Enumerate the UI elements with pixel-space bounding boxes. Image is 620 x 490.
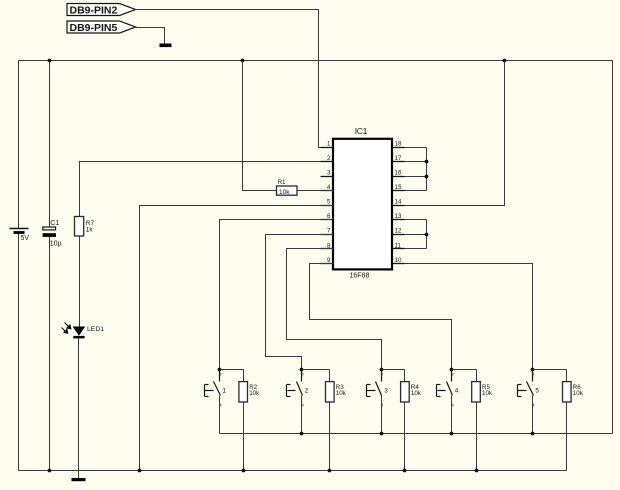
svg-text:IC1: IC1 bbox=[355, 126, 368, 136]
svg-text:10k: 10k bbox=[482, 390, 493, 397]
junction switch rail / switch 5 bbox=[531, 432, 535, 436]
wire switch 1 bottom bbox=[219, 396, 221, 434]
wire R2 to ground rail bbox=[243, 403, 245, 471]
wire R3 to ground rail bbox=[329, 403, 331, 471]
node switch 4 top junction bbox=[450, 368, 454, 372]
pin 6 bbox=[321, 213, 334, 220]
wire pin 13 to bus bbox=[405, 219, 427, 221]
svg-text:1: 1 bbox=[223, 387, 227, 394]
wire pin 11 to bus bbox=[405, 248, 427, 250]
wire R1 to +5V rail bbox=[243, 61, 277, 191]
wire IC pin 9 to switch 4 bbox=[310, 264, 452, 370]
junction bus / pin 17 bbox=[425, 160, 429, 164]
wire switch 2 to R3 bbox=[302, 369, 330, 371]
svg-text:DB9-PIN5: DB9-PIN5 bbox=[70, 22, 118, 34]
wire bus pins 18-15 bbox=[426, 148, 428, 191]
svg-text:2: 2 bbox=[327, 155, 331, 162]
resistor R2 10k bbox=[239, 370, 260, 403]
svg-text:10k: 10k bbox=[411, 390, 422, 397]
wire switch 5 to R6 bbox=[533, 369, 567, 371]
svg-text:1: 1 bbox=[327, 140, 331, 147]
svg-text:3: 3 bbox=[327, 170, 331, 177]
svg-text:C1: C1 bbox=[50, 220, 59, 227]
node switch 3 top junction bbox=[380, 368, 384, 372]
pin 10 bbox=[393, 257, 405, 264]
wire R6 to ground rail bbox=[566, 403, 568, 471]
wire battery bottom bbox=[18, 234, 20, 471]
svg-text:10k: 10k bbox=[249, 390, 260, 397]
svg-text:R1: R1 bbox=[278, 180, 286, 186]
wire switch 3 to R4 bbox=[382, 369, 405, 371]
wire switch 3 bottom bbox=[381, 396, 383, 434]
svg-text:10: 10 bbox=[395, 257, 402, 264]
svg-text:5V: 5V bbox=[21, 235, 30, 242]
pin 18 bbox=[393, 140, 405, 147]
svg-text:2: 2 bbox=[305, 387, 309, 394]
wire switch rail bbox=[220, 433, 613, 435]
junction ground rail / R5 bbox=[475, 469, 479, 473]
pin 16 bbox=[393, 170, 405, 177]
wire R7 to LED1 bbox=[79, 237, 81, 327]
svg-text:10k: 10k bbox=[279, 189, 290, 196]
pin 12 bbox=[393, 228, 405, 235]
wire C1 top bbox=[49, 61, 51, 228]
wire IC pin 8 to switch 3 bbox=[287, 249, 382, 370]
wire pin 18 to bus bbox=[405, 147, 427, 149]
wire switch 4 bottom bbox=[451, 396, 453, 434]
wire switch 5 bottom bbox=[532, 396, 534, 434]
pin 9 bbox=[321, 257, 334, 264]
pin 8 bbox=[321, 242, 334, 249]
svg-text:10µ: 10µ bbox=[50, 240, 62, 247]
resistor R4 10k bbox=[401, 370, 422, 403]
svg-text:18: 18 bbox=[395, 140, 402, 147]
svg-text:9: 9 bbox=[327, 257, 331, 264]
wire R4 to ground rail bbox=[404, 403, 406, 471]
junction ground rail / R3 bbox=[328, 469, 332, 473]
battery 5V bbox=[10, 229, 30, 242]
wire pin 17 to bus bbox=[405, 161, 427, 163]
svg-text:3: 3 bbox=[384, 387, 388, 394]
wire DB9-PIN5 to ground bbox=[136, 28, 165, 44]
wire IC pin 4 to R1 bbox=[298, 190, 334, 192]
svg-text:14: 14 bbox=[395, 199, 402, 206]
wire IC pin 5 to ground rail bbox=[140, 206, 334, 471]
pin 11 bbox=[393, 242, 405, 249]
svg-text:4: 4 bbox=[455, 387, 459, 394]
svg-text:10k: 10k bbox=[573, 390, 584, 397]
svg-text:11: 11 bbox=[395, 242, 402, 249]
switch S4 (push button) bbox=[437, 370, 459, 407]
connector flag DB9-PIN2 bbox=[67, 4, 136, 17]
junction bus / pin 12 bbox=[425, 233, 429, 237]
pin 17 bbox=[393, 155, 405, 162]
switch S1 (push button) bbox=[205, 370, 227, 407]
svg-text:13: 13 bbox=[395, 213, 402, 220]
svg-text:7: 7 bbox=[327, 228, 331, 235]
wire R5 to ground rail bbox=[476, 403, 478, 471]
wire pin 16 to bus bbox=[405, 176, 427, 178]
junction ground rail / R2 bbox=[242, 469, 246, 473]
wire +5V top rail bbox=[19, 60, 613, 62]
wire ground rail bbox=[19, 470, 567, 472]
svg-text:10k: 10k bbox=[336, 390, 347, 397]
switch S2 (push button) bbox=[287, 370, 309, 407]
svg-text:LED1: LED1 bbox=[87, 326, 104, 333]
junction switch rail / switch 3 bbox=[380, 432, 384, 436]
capacitor C1 bbox=[43, 220, 62, 248]
wire pin 12 to bus bbox=[405, 234, 427, 236]
svg-text:17: 17 bbox=[395, 155, 402, 162]
wire switch 1 to R2 bbox=[220, 369, 244, 371]
wire pin 10 to switch 5 bbox=[405, 264, 533, 370]
svg-text:5: 5 bbox=[535, 387, 539, 394]
wire bus pins 13-11 bbox=[426, 220, 428, 249]
svg-text:5: 5 bbox=[327, 199, 331, 206]
junction top rail / pin 14 bbox=[503, 59, 507, 63]
svg-text:1k: 1k bbox=[86, 227, 94, 234]
svg-text:DB9-PIN2: DB9-PIN2 bbox=[70, 4, 118, 16]
junction bus / pin 16 bbox=[425, 175, 429, 179]
wire switch 2 bottom bbox=[301, 396, 303, 434]
pin 5 bbox=[321, 199, 334, 206]
pin 13 bbox=[393, 213, 405, 220]
resistor R3 10k bbox=[326, 370, 347, 403]
junction ground rail / C1 bbox=[48, 469, 52, 473]
svg-text:16F88: 16F88 bbox=[350, 272, 370, 279]
resistor R7 1k bbox=[75, 217, 95, 237]
wire DB9-PIN2 to IC pin 1 bbox=[136, 10, 334, 148]
pin 1 bbox=[321, 140, 334, 147]
wire switch 4 to R5 bbox=[452, 369, 477, 371]
node switch 1 top junction bbox=[218, 368, 222, 372]
connector flag DB9-PIN5 bbox=[67, 21, 136, 34]
switch S3 (push button) bbox=[367, 370, 389, 407]
LED LED1 bbox=[62, 323, 105, 339]
wire C1 bottom bbox=[49, 237, 51, 471]
pin 4 bbox=[321, 184, 334, 191]
op-amp/IC U1 body IC1 16F88 bbox=[333, 126, 392, 279]
svg-text:15: 15 bbox=[395, 184, 402, 191]
junction switch rail / switch 4 bbox=[450, 432, 454, 436]
pin 15 bbox=[393, 184, 405, 191]
pin 3 bbox=[321, 170, 334, 177]
wire right edge (+5V to switch rail) bbox=[612, 61, 614, 434]
pin 7 bbox=[321, 228, 334, 235]
wire LED1 to ground rail bbox=[78, 339, 80, 471]
svg-text:16: 16 bbox=[395, 170, 402, 177]
ground (bottom rail) bbox=[72, 471, 86, 482]
wire pin 15 to bus bbox=[405, 190, 427, 192]
switch S5 (push button) bbox=[518, 370, 540, 407]
junction ground rail / pin 5 wire bbox=[138, 469, 142, 473]
wire pin 14 to +5V rail bbox=[405, 61, 505, 206]
wire IC pin 7 to switch 2 bbox=[266, 235, 334, 370]
wire IC pin 2 to R7 bbox=[80, 162, 334, 217]
pin 14 bbox=[393, 199, 405, 206]
junction switch rail / switch 2 bbox=[300, 432, 304, 436]
svg-text:12: 12 bbox=[395, 228, 402, 235]
resistor R5 10k bbox=[472, 370, 493, 403]
node switch 2 top junction bbox=[300, 368, 304, 372]
junction top rail / C1 bbox=[48, 59, 52, 63]
ground (DB9-PIN5) bbox=[160, 44, 172, 48]
node switch 5 top junction bbox=[531, 368, 535, 372]
pin 2 bbox=[321, 155, 334, 162]
resistor R1 10k bbox=[277, 180, 298, 196]
resistor R6 10k bbox=[563, 370, 584, 403]
junction ground rail / R4 bbox=[403, 469, 407, 473]
junction top rail / R1 bbox=[241, 59, 245, 63]
wire IC pin 6 to switch 1 bbox=[220, 220, 334, 370]
wire battery top bbox=[18, 61, 20, 229]
